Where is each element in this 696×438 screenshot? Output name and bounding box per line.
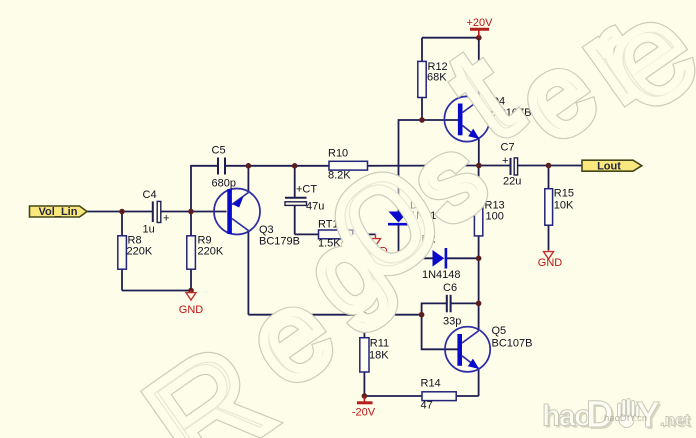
svg-text:haoDIY.cn: haoDIY.cn (604, 413, 647, 424)
svg-text:47: 47 (421, 400, 433, 412)
svg-text:BC107B: BC107B (492, 338, 533, 350)
svg-text:R11: R11 (370, 338, 389, 350)
svg-text:1u: 1u (143, 224, 155, 236)
svg-text:10K: 10K (554, 200, 574, 212)
svg-text:GND: GND (179, 304, 204, 316)
svg-text:220K: 220K (127, 246, 153, 258)
svg-text:+: + (163, 213, 169, 225)
svg-text:GND: GND (538, 257, 563, 269)
svg-text:Q3: Q3 (259, 224, 274, 236)
svg-text:680p: 680p (212, 178, 236, 190)
svg-text:C4: C4 (143, 189, 157, 201)
svg-text:Lout: Lout (597, 161, 621, 173)
svg-text:Vol_Lin: Vol_Lin (39, 206, 78, 218)
svg-text:-20V: -20V (352, 407, 376, 419)
svg-text:18K: 18K (369, 350, 389, 362)
svg-text:220K: 220K (198, 246, 224, 258)
svg-text:R14: R14 (421, 378, 441, 390)
svg-text:22u: 22u (503, 176, 521, 188)
svg-text:33p: 33p (443, 316, 461, 328)
svg-text:hao: hao (542, 400, 592, 433)
svg-text:+20V: +20V (467, 17, 494, 29)
svg-text:Q5: Q5 (492, 325, 507, 337)
svg-text:C6: C6 (443, 282, 457, 294)
svg-text:R15: R15 (554, 188, 574, 200)
svg-text:.net: .net (660, 411, 691, 430)
svg-text:C5: C5 (212, 145, 226, 157)
